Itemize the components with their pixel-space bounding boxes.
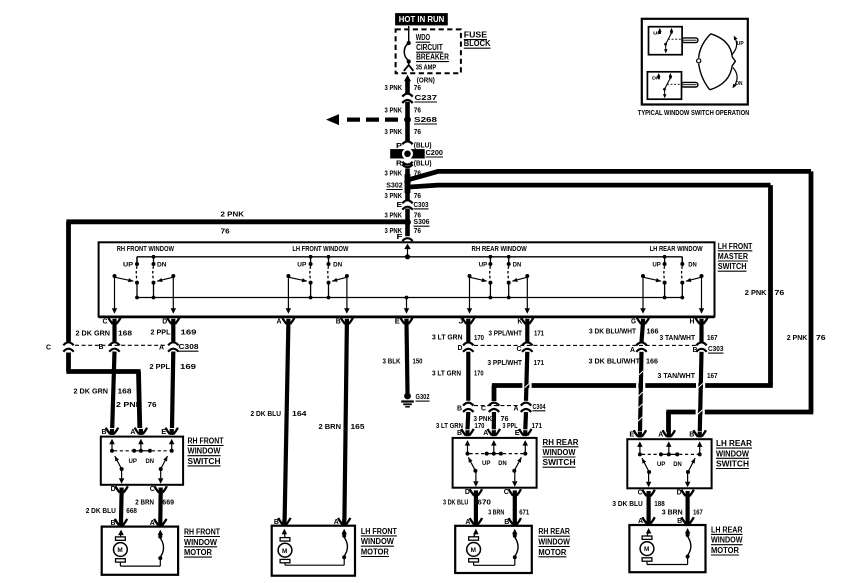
svg-text:76: 76 [414, 83, 421, 92]
LH rear window motor [629, 525, 705, 572]
svg-text:H: H [690, 317, 695, 326]
svg-text:E: E [395, 317, 400, 326]
svg-text:C303: C303 [708, 344, 724, 353]
connector C237 [402, 94, 412, 97]
svg-text:76: 76 [221, 227, 230, 236]
svg-text:D: D [111, 484, 116, 493]
svg-text:M: M [117, 547, 122, 554]
wire 3 LT GRN 170 (C304 to RH rear switch B) [465, 412, 470, 429]
svg-text:3 PNK: 3 PNK [474, 414, 493, 423]
wire 3 BRN 671 (switch C to motor B) [513, 494, 517, 520]
svg-text:669: 669 [162, 497, 174, 506]
splice S306 [404, 219, 411, 226]
wire 3 TAN/WHT 167 (C303 to LH rear switch B) [700, 352, 702, 431]
svg-text:166: 166 [646, 357, 658, 366]
svg-text:D: D [458, 343, 463, 352]
LH front master switch box [99, 242, 715, 316]
svg-text:DN: DN [652, 76, 661, 81]
svg-text:DN: DN [513, 261, 522, 268]
svg-text:UP: UP [482, 460, 491, 467]
svg-text:C200: C200 [426, 148, 444, 157]
svg-text:C308: C308 [179, 342, 199, 351]
svg-text:UP: UP [657, 461, 666, 468]
svg-text:D: D [677, 488, 682, 497]
svg-text:M: M [644, 546, 649, 553]
svg-text:150: 150 [413, 356, 423, 365]
svg-text:S302: S302 [386, 181, 402, 190]
svg-text:UP: UP [479, 261, 488, 268]
wire 2 DK BLU 164 (A to LH front motor) [285, 323, 289, 521]
svg-text:166: 166 [647, 326, 659, 335]
wire 3 PNK 76 (seg 4) [405, 169, 410, 201]
top feed bus wire [137, 256, 682, 258]
svg-text:WINDOW: WINDOW [711, 536, 743, 545]
bottom common bus wire [137, 297, 681, 299]
svg-text:3 DK BLU: 3 DK BLU [443, 498, 469, 507]
svg-text:2 PNK: 2 PNK [116, 400, 143, 409]
svg-text:M: M [282, 548, 287, 555]
svg-text:2 PNK: 2 PNK [787, 333, 808, 342]
RH rear window switch [453, 438, 537, 488]
svg-text:A: A [159, 343, 164, 352]
wire 2 BRN 165 (B to LH front motor) [344, 323, 347, 521]
terminal E internal wire [405, 296, 409, 300]
svg-text:76: 76 [414, 106, 421, 115]
wire 2 DK GRN 168 (C to C308) [112, 323, 116, 342]
svg-text:2 PNK: 2 PNK [745, 288, 767, 297]
svg-text:2 BRN: 2 BRN [135, 497, 154, 506]
svg-text:171: 171 [532, 421, 543, 430]
svg-text:RH REAR WINDOW: RH REAR WINDOW [472, 244, 527, 253]
svg-text:(BLU): (BLU) [414, 158, 432, 167]
svg-text:2 DK BLU: 2 DK BLU [86, 506, 117, 515]
svg-text:WINDOW: WINDOW [188, 447, 221, 456]
wire 3 DK BLU/WHT 166 (C303 to LH rear switch E) [640, 352, 642, 431]
svg-text:UP: UP [737, 41, 745, 47]
wire 3 PNK 76 (C304 to RH rear switch A) [492, 412, 496, 429]
legend TYPICAL WINDOW SWITCH OPERATION [642, 19, 748, 105]
svg-text:3 LT GRN: 3 LT GRN [432, 332, 463, 341]
svg-text:2 DK GRN: 2 DK GRN [76, 328, 111, 337]
svg-text:3 PPL/WHT: 3 PPL/WHT [489, 328, 523, 337]
svg-text:M: M [471, 547, 476, 554]
svg-text:RH REAR: RH REAR [543, 438, 579, 447]
svg-text:G: G [631, 317, 636, 326]
svg-text:BLOCK: BLOCK [464, 39, 491, 48]
svg-text:UP: UP [297, 261, 306, 268]
svg-text:171: 171 [534, 328, 545, 337]
RH front window switch [101, 437, 183, 485]
svg-text:DN: DN [736, 81, 743, 87]
svg-text:2 BRN: 2 BRN [319, 422, 342, 431]
svg-text:HOT IN RUN: HOT IN RUN [399, 15, 445, 24]
svg-text:B: B [99, 342, 104, 351]
svg-text:3 TAN/WHT: 3 TAN/WHT [660, 333, 696, 342]
svg-text:3 PNK: 3 PNK [385, 211, 403, 220]
svg-text:UP: UP [653, 30, 661, 35]
svg-text:165: 165 [351, 422, 366, 431]
svg-text:LH FRONT: LH FRONT [718, 242, 753, 251]
RH rear window motor [455, 526, 532, 573]
svg-text:F: F [397, 232, 403, 241]
svg-text:C: C [481, 404, 486, 413]
wire 2 DK BLU 668 (switch D to motor B) [119, 492, 124, 521]
wire 3 PPL/WHT 171 (K to C303) [525, 323, 529, 342]
svg-text:TYPICAL WINDOW SWITCH OPERATIO: TYPICAL WINDOW SWITCH OPERATION [638, 108, 750, 117]
svg-text:WINDOW: WINDOW [538, 538, 570, 547]
svg-text:170: 170 [474, 368, 484, 377]
terminal F arrow into box and feed bus [404, 244, 411, 250]
svg-text:3 PPL/WHT: 3 PPL/WHT [488, 358, 523, 367]
svg-text:RH FRONT WINDOW: RH FRONT WINDOW [117, 244, 174, 253]
ground G302 [404, 393, 411, 400]
svg-text:G302: G302 [416, 392, 430, 401]
svg-text:D: D [465, 487, 470, 496]
svg-text:MASTER: MASTER [718, 252, 748, 261]
svg-text:LH REAR WINDOW: LH REAR WINDOW [650, 244, 703, 253]
svg-text:C: C [504, 487, 509, 496]
svg-text:76: 76 [414, 226, 421, 235]
svg-text:3 PNK: 3 PNK [385, 127, 403, 136]
fuse block dashed box [396, 29, 461, 73]
svg-text:C303: C303 [414, 200, 429, 209]
svg-text:168: 168 [118, 328, 132, 337]
svg-text:3 PNK: 3 PNK [385, 83, 403, 92]
svg-text:C304: C304 [533, 402, 547, 411]
svg-text:2 DK GRN: 2 DK GRN [74, 387, 109, 396]
svg-text:A: A [514, 404, 519, 413]
wire crossover gaps [522, 383, 524, 389]
svg-text:3 DK BLU: 3 DK BLU [612, 499, 643, 508]
svg-text:DN: DN [688, 261, 697, 268]
wire 3 BLK 150 (E to ground) [407, 323, 408, 394]
wire (ORN) from fuse block, arrow up [404, 75, 411, 82]
wire 3 DK BLU 188 (switch C to motor A) [646, 495, 650, 519]
svg-text:76: 76 [414, 127, 421, 136]
svg-text:2 PPL: 2 PPL [151, 327, 171, 336]
svg-text:3 DK BLU/WHT: 3 DK BLU/WHT [589, 357, 641, 366]
svg-text:RH FRONT: RH FRONT [184, 528, 220, 537]
svg-text:3 LT GRN: 3 LT GRN [432, 368, 461, 377]
RH front window motor [102, 527, 178, 575]
svg-text:RH REAR: RH REAR [538, 527, 570, 536]
svg-text:76: 76 [775, 288, 785, 297]
svg-text:LH FRONT WINDOW: LH FRONT WINDOW [292, 244, 348, 253]
wire 3 PNK 76 (seg 2) [405, 102, 410, 142]
svg-text:S268: S268 [414, 115, 437, 124]
svg-text:169: 169 [180, 362, 196, 371]
svg-text:DN: DN [498, 460, 507, 467]
svg-text:WDO: WDO [416, 33, 430, 42]
svg-text:171: 171 [534, 358, 545, 367]
LH front window motor [272, 526, 355, 576]
svg-text:LH REAR: LH REAR [716, 439, 752, 448]
svg-text:169: 169 [181, 327, 197, 336]
connector C304 [474, 405, 520, 407]
svg-text:MOTOR: MOTOR [361, 548, 389, 557]
svg-text:2 PNK: 2 PNK [221, 210, 245, 219]
svg-text:C: C [150, 484, 155, 493]
splice S268 with dashed branch arrow [404, 116, 411, 123]
svg-text:SWITCH: SWITCH [718, 262, 747, 271]
svg-text:671: 671 [519, 507, 530, 516]
wire 2 PNK 76 left feed from S306 [66, 219, 405, 224]
svg-text:SWITCH: SWITCH [543, 458, 576, 467]
svg-text:2 PPL: 2 PPL [150, 362, 171, 371]
wire 3 PNK 76 (seg 6) [405, 209, 410, 237]
svg-text:C: C [638, 488, 643, 497]
wire 2 PNK 76 right inner feed (S302 to C304) [410, 185, 771, 187]
svg-text:DN: DN [157, 261, 167, 268]
svg-text:76: 76 [148, 400, 157, 409]
svg-text:WINDOW: WINDOW [361, 537, 394, 546]
svg-text:3 BLK: 3 BLK [383, 356, 401, 365]
wire 3 PPL/WHT 171 (C303 to C304) [526, 352, 527, 401]
wire 2 PPL 169 (C308 to RH front switch E) [172, 352, 173, 429]
svg-text:E: E [397, 200, 403, 209]
svg-text:C: C [517, 344, 522, 353]
svg-text:C: C [103, 317, 108, 326]
wire 2 PNK 76 right outer feed (S302 to LH rear switch) [410, 171, 812, 179]
svg-text:P: P [396, 141, 402, 150]
svg-text:670: 670 [477, 498, 491, 507]
svg-text:3 PNK: 3 PNK [385, 106, 403, 115]
connector C200 bulkhead [390, 149, 425, 158]
svg-text:SWITCH: SWITCH [188, 457, 221, 466]
svg-text:WINDOW: WINDOW [184, 538, 217, 547]
svg-text:A: A [277, 317, 282, 326]
svg-text:CIRCUIT: CIRCUIT [416, 43, 443, 52]
svg-text:LH FRONT: LH FRONT [361, 527, 397, 536]
svg-text:WINDOW: WINDOW [716, 449, 749, 458]
wire crossover nicks [639, 371, 644, 375]
splice S302 [404, 179, 410, 185]
wire 3 DK BLU 670 (switch D to motor A) [474, 494, 478, 520]
wire 3 TAN/WHT 167 (H to C303) [699, 323, 703, 342]
svg-text:A: A [630, 345, 635, 354]
svg-text:UP: UP [129, 458, 138, 465]
wire 2 PPL 169 (D to C308) [171, 323, 175, 342]
svg-text:76: 76 [414, 191, 421, 200]
svg-text:B: B [457, 403, 462, 412]
svg-text:DN: DN [146, 458, 155, 465]
svg-text:WINDOW: WINDOW [543, 448, 576, 457]
svg-text:DN: DN [673, 461, 682, 468]
wire 2 DK GRN 168 (C308 to RH front switch B) [112, 352, 114, 429]
svg-text:3 BRN: 3 BRN [488, 507, 504, 516]
svg-text:167: 167 [693, 508, 703, 517]
svg-text:C: C [46, 343, 51, 352]
svg-text:MOTOR: MOTOR [711, 546, 739, 555]
svg-text:MOTOR: MOTOR [538, 548, 566, 557]
wire 3 BRN 167 (switch D to motor B) [685, 495, 689, 519]
svg-text:R: R [396, 159, 403, 168]
svg-text:168: 168 [118, 387, 132, 396]
svg-text:BREAKER: BREAKER [416, 53, 449, 62]
LH rear window switch [627, 439, 711, 488]
svg-text:MOTOR: MOTOR [184, 548, 212, 557]
wire 3 PPL 171 (C304 to RH rear switch E) [523, 412, 528, 429]
svg-text:167: 167 [707, 371, 718, 380]
power feed label HOT IN RUN [395, 13, 448, 25]
svg-text:DN: DN [333, 261, 343, 268]
svg-text:76: 76 [816, 333, 826, 342]
svg-text:C237: C237 [415, 93, 438, 102]
svg-text:668: 668 [126, 506, 137, 515]
svg-text:35 AMP: 35 AMP [416, 63, 437, 72]
svg-text:170: 170 [474, 333, 484, 342]
svg-text:UP: UP [652, 261, 661, 268]
wire 3 LT GRN 170 (J to C303) [466, 323, 470, 342]
wire 3 DK BLU/WHT 166 (G to C303) [642, 323, 644, 342]
connector C303 (rear harness) [474, 344, 697, 346]
wire 3 LT GRN 170 (C303 to C304) [466, 352, 470, 401]
circuit breaker WDO CIRCUIT BREAKER 35 AMP [408, 26, 410, 42]
wire 2 BRN 669 (switch C to motor A) [158, 492, 163, 521]
svg-text:UP: UP [123, 261, 133, 268]
connector C308 [75, 344, 167, 346]
svg-text:3 PNK: 3 PNK [385, 168, 403, 177]
svg-text:RH FRONT: RH FRONT [188, 437, 224, 446]
svg-text:LH REAR: LH REAR [711, 525, 743, 534]
svg-text:SWITCH: SWITCH [716, 460, 749, 469]
svg-text:3 TAN/WHT: 3 TAN/WHT [658, 371, 696, 380]
svg-text:3 PNK: 3 PNK [385, 191, 403, 200]
svg-text:167: 167 [707, 333, 718, 342]
svg-text:2 DK BLU: 2 DK BLU [251, 409, 282, 418]
svg-text:164: 164 [292, 409, 307, 418]
svg-text:3 DK BLU/WHT: 3 DK BLU/WHT [589, 326, 636, 335]
